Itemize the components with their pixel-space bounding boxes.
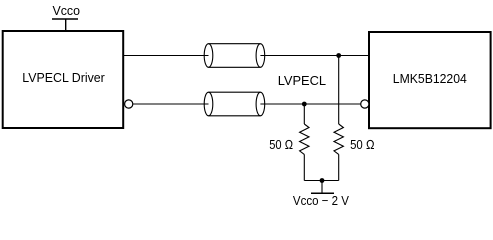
wire R2 bottom lead <box>338 154 340 180</box>
inversion bubble LMK input N <box>361 100 369 108</box>
wire driver bubble to TL2 <box>133 103 209 105</box>
svg-text:LVPECL Driver: LVPECL Driver <box>22 70 105 85</box>
block LMK5B12204 <box>369 32 491 128</box>
junction dot bottom rail <box>320 178 325 183</box>
power symbol Vcco minus 2V <box>311 181 334 194</box>
wire dropper to R2 <box>338 56 340 125</box>
wire dropper to R1 <box>303 104 305 124</box>
svg-text:50 Ω: 50 Ω <box>269 137 293 152</box>
svg-text:LVPECL: LVPECL <box>278 73 326 88</box>
svg-text:Vcco − 2 V: Vcco − 2 V <box>293 193 349 208</box>
junction dot top <box>336 53 341 58</box>
wire bottom rail joining R1 R2 <box>304 180 338 182</box>
junction dot bottom wire <box>302 102 307 107</box>
svg-text:LMK5B12204: LMK5B12204 <box>393 71 467 86</box>
block LVPECL Driver <box>3 31 124 128</box>
resistor R1 <box>300 124 309 154</box>
svg-text:50 Ω: 50 Ω <box>350 137 375 152</box>
transmission line TL1 <box>204 44 265 68</box>
inversion bubble driver output N <box>125 100 133 108</box>
transmission line TL2 <box>204 92 265 116</box>
wire TL2 to LMK bubble <box>260 103 360 105</box>
wire TL1 to LMK input <box>260 55 368 57</box>
power symbol Vcco <box>52 19 78 32</box>
wire driver output P to TL1 <box>124 55 209 57</box>
resistor R2 <box>334 124 343 154</box>
wire R1 bottom lead <box>303 154 305 180</box>
svg-text:Vcco: Vcco <box>53 3 81 18</box>
